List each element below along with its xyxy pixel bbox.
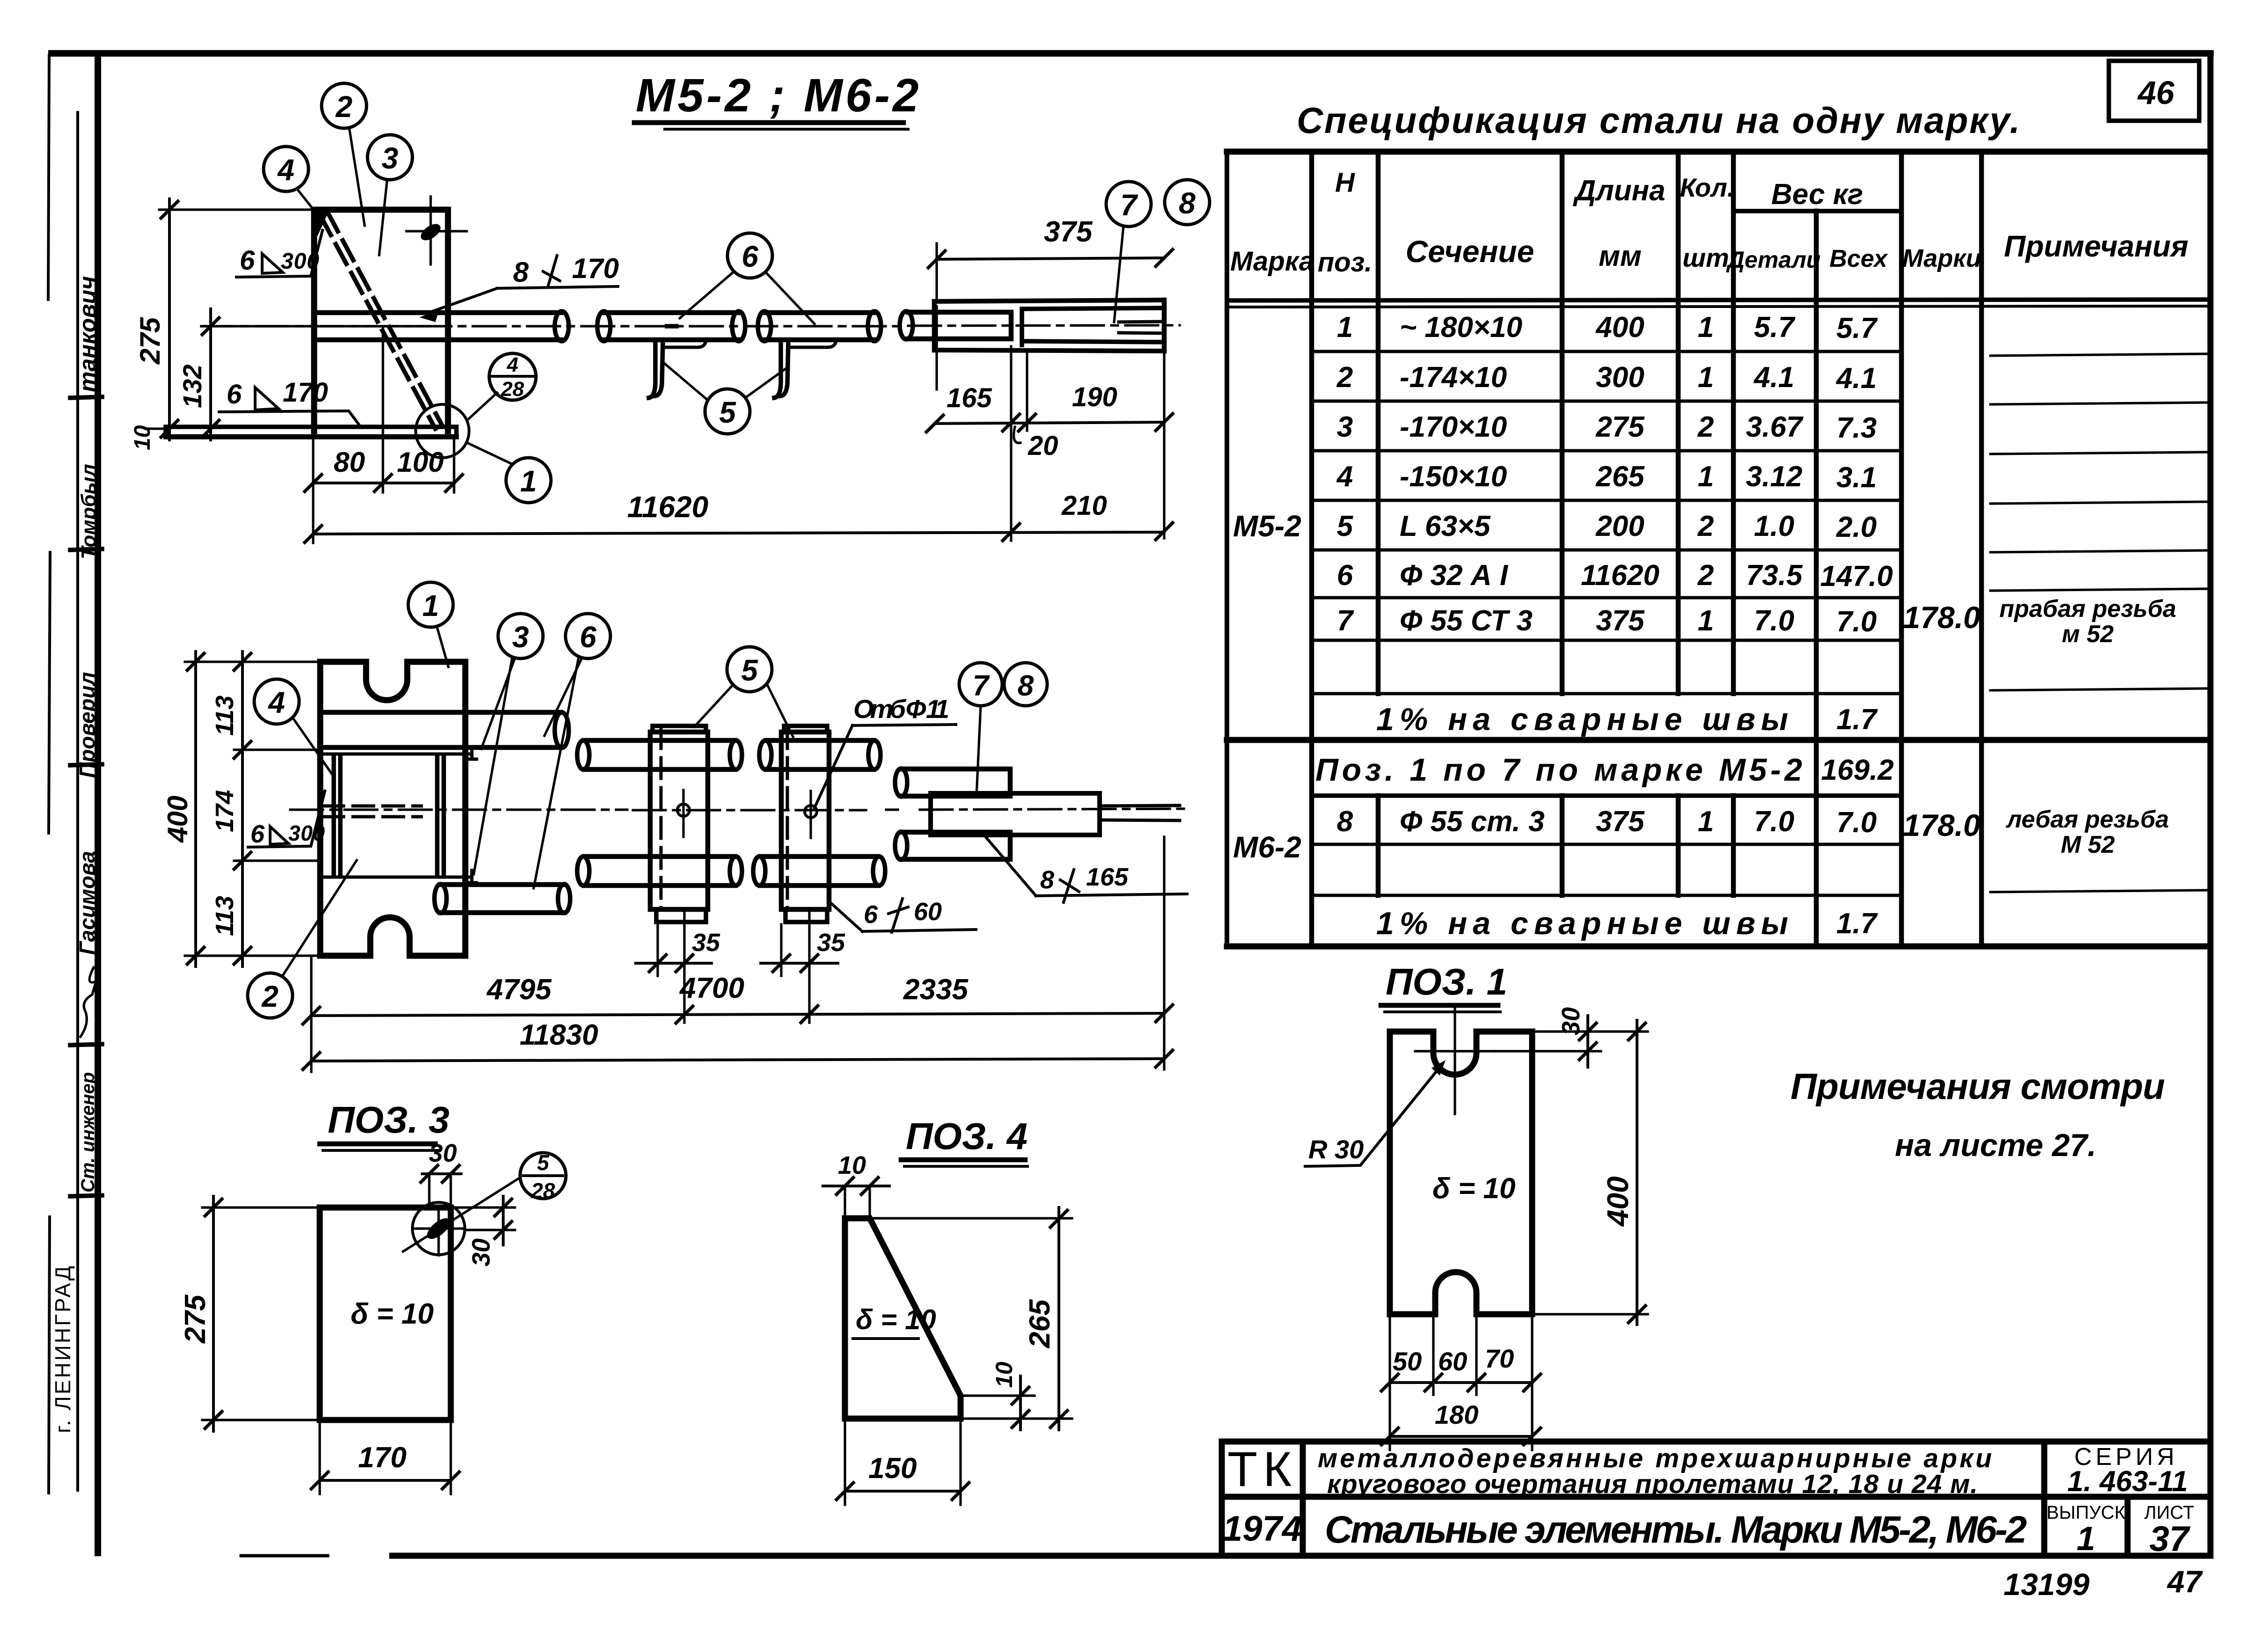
table top border xyxy=(1227,149,2210,155)
svg-text:375: 375 xyxy=(1596,805,1645,838)
svg-text:3: 3 xyxy=(1337,411,1353,443)
svg-text:8: 8 xyxy=(1337,805,1353,838)
poz1 ext line 400 bottom xyxy=(1532,1313,1648,1315)
svg-text:4.1: 4.1 xyxy=(1753,361,1794,394)
svg-text:169.2: 169.2 xyxy=(1821,754,1894,786)
svg-text:Стальные элементы. Марки М5-2,: Стальные элементы. Марки М5-2, М6-2 xyxy=(1325,1508,2027,1551)
col line marki xyxy=(1899,152,1904,946)
balloon 3 xyxy=(367,135,412,180)
poz1 dim 180 xyxy=(1390,1435,1532,1438)
poz1 notch crosshair xyxy=(1415,1006,1495,1114)
svg-text:7: 7 xyxy=(973,670,990,702)
svg-text:400: 400 xyxy=(162,796,193,843)
title block divider vypusk/list xyxy=(2125,1497,2131,1556)
svg-text:300: 300 xyxy=(281,249,319,274)
svg-text:лебая резьба: лебая резьба xyxy=(2005,806,2169,833)
svg-text:275: 275 xyxy=(1595,411,1645,443)
svg-text:50: 50 xyxy=(1393,1347,1422,1376)
stiffener P4 right pair xyxy=(437,755,444,876)
svg-text:70: 70 xyxy=(1485,1344,1514,1373)
rod cap top plan xyxy=(555,712,569,748)
svg-text:275: 275 xyxy=(179,1294,212,1344)
svg-text:Примечания смотри: Примечания смотри xyxy=(1791,1066,2165,1107)
title underline xyxy=(634,120,903,125)
svg-text:60: 60 xyxy=(1438,1347,1467,1376)
dim 11620 xyxy=(313,532,1164,534)
svg-text:-150×10: -150×10 xyxy=(1400,461,1507,493)
poz1 title underline xyxy=(1381,1003,1498,1008)
balloon 2 plan xyxy=(248,973,293,1018)
svg-text:6: 6 xyxy=(864,900,878,929)
svg-text:10: 10 xyxy=(991,1361,1017,1388)
svg-text:Ф 55 СТ 3: Ф 55 СТ 3 xyxy=(1400,605,1533,637)
poz3 dim 275 xyxy=(212,1196,215,1431)
svg-text:ПОЗ. 4: ПОЗ. 4 xyxy=(906,1115,1028,1157)
svg-text:30: 30 xyxy=(467,1238,495,1266)
svg-text:1: 1 xyxy=(422,589,439,622)
dim 132 left xyxy=(209,309,212,440)
balloon 1 xyxy=(506,458,551,503)
svg-text:прабая резьба: прабая резьба xyxy=(1999,595,2176,622)
svg-text:R 30: R 30 xyxy=(1308,1135,1364,1164)
row sep 5 xyxy=(1312,549,1901,552)
plug weld crosshair vertical xyxy=(429,197,432,264)
svg-text:4: 4 xyxy=(267,686,285,719)
svg-text:Ф 32 А I: Ф 32 А I xyxy=(1400,559,1509,592)
svg-text:1: 1 xyxy=(1698,805,1714,838)
coupling outer bottom xyxy=(934,350,1164,351)
page number box xyxy=(2109,61,2199,121)
svg-text:Детали: Детали xyxy=(1726,247,1820,273)
row sep 1 xyxy=(1312,350,1901,353)
svg-text:113: 113 xyxy=(211,896,239,936)
balloon 7 plan xyxy=(959,663,1002,706)
ext verticals plan dims xyxy=(311,837,1164,1072)
svg-text:20: 20 xyxy=(1028,431,1058,461)
stamp column ticks xyxy=(70,397,102,1196)
svg-text:8: 8 xyxy=(1040,866,1054,894)
svg-text:300: 300 xyxy=(1596,361,1644,394)
svg-text:1: 1 xyxy=(520,464,537,498)
rod middle segment A xyxy=(604,313,739,340)
poz4 dim 10 right xyxy=(1019,1376,1022,1430)
col line marka xyxy=(1225,152,1229,946)
poz4 ext lines 150 xyxy=(845,1420,961,1505)
ext verticals 80/100 xyxy=(313,327,454,543)
title block divider TK xyxy=(1300,1442,1306,1556)
plug weld blob xyxy=(418,221,443,244)
balloon 6 plan xyxy=(565,614,610,659)
svg-text:Спецификация стали на одну мар: Спецификация стали на одну марку. xyxy=(1297,100,2020,141)
svg-text:47: 47 xyxy=(2166,1564,2203,1599)
module B plate P5 xyxy=(781,732,829,909)
module B hidden line xyxy=(786,728,789,908)
balloon 7 xyxy=(1106,182,1151,227)
balloon 8 plan xyxy=(1004,663,1047,706)
svg-text:7.3: 7.3 xyxy=(1836,412,1877,444)
plate P3 elevation xyxy=(314,210,448,431)
module C sleeve xyxy=(931,793,1100,835)
module A hole xyxy=(677,804,690,816)
poz3 dim 30 top xyxy=(422,1172,461,1175)
svg-text:6: 6 xyxy=(741,240,758,273)
col line primechaniya xyxy=(1979,152,1984,946)
svg-text:180: 180 xyxy=(1435,1400,1478,1429)
balloon 5 plan xyxy=(727,647,772,692)
svg-text:Проверил: Проверил xyxy=(75,672,99,778)
svg-text:танкович: танкович xyxy=(74,276,101,392)
svg-text:2: 2 xyxy=(335,90,352,124)
svg-text:4: 4 xyxy=(277,153,294,187)
base plate P1 edge xyxy=(166,427,456,437)
svg-text:4700: 4700 xyxy=(679,972,744,1004)
svg-text:5: 5 xyxy=(741,653,758,687)
svg-text:7.0: 7.0 xyxy=(1836,606,1877,638)
dim 35 module A xyxy=(636,962,712,965)
svg-text:400: 400 xyxy=(1595,311,1644,344)
module A top rod xyxy=(584,740,735,769)
svg-text:11620: 11620 xyxy=(627,490,708,524)
svg-text:80: 80 xyxy=(334,447,365,478)
svg-text:ТК: ТК xyxy=(1227,1442,1297,1497)
table section divider M5/M6 xyxy=(1227,737,2210,743)
sheet outer edge line xyxy=(48,55,50,1493)
stamp signature xyxy=(81,967,96,1037)
row sep 8 xyxy=(1312,843,1901,846)
svg-text:1: 1 xyxy=(2077,1520,2095,1558)
svg-text:113: 113 xyxy=(211,695,239,736)
ext line base xyxy=(145,427,166,430)
poz4 dim 10 top xyxy=(823,1185,889,1187)
dim 80 100 xyxy=(313,482,454,484)
threaded tail lines xyxy=(1119,322,1164,333)
poz1 dim 400 xyxy=(1636,1020,1638,1325)
plug weld crosshair horizontal xyxy=(406,230,467,232)
svg-text:Кол.: Кол. xyxy=(1680,173,1735,202)
svg-text:2: 2 xyxy=(1697,559,1714,592)
svg-text:11620: 11620 xyxy=(1581,559,1659,592)
row sep 4 xyxy=(1312,499,1901,502)
rod P6 top plan xyxy=(320,712,561,747)
poz1 ext verticals bottom xyxy=(1390,1316,1532,1450)
svg-text:1: 1 xyxy=(1698,361,1714,394)
balloon 3 plan xyxy=(498,614,543,659)
poz4 dim 265 xyxy=(1057,1208,1060,1430)
svg-text:Гасимова: Гасимова xyxy=(75,851,99,955)
svg-text:170: 170 xyxy=(572,253,619,284)
dim line 11830 xyxy=(311,1059,1164,1061)
frame left border xyxy=(95,53,101,1553)
primechaniya ruled lines xyxy=(1990,354,2207,892)
dim 113/174/113 plan xyxy=(241,651,244,966)
module B bottom rod xyxy=(760,856,878,886)
svg-text:8: 8 xyxy=(1018,670,1034,702)
row sep under poz row xyxy=(1312,793,1901,798)
row sep above 1% M6 xyxy=(1312,894,1901,897)
svg-text:1: 1 xyxy=(1337,311,1353,344)
balloon 6 top xyxy=(727,233,772,278)
svg-text:-174×10: -174×10 xyxy=(1400,361,1507,394)
svg-text:М 52: М 52 xyxy=(2061,831,2115,858)
data rows xyxy=(1315,311,2176,941)
svg-text:5: 5 xyxy=(537,1150,550,1175)
diagonal brace P2 hidden dashed xyxy=(320,212,442,429)
col line kol xyxy=(1676,152,1681,895)
svg-text:11830: 11830 xyxy=(520,1019,598,1051)
poz1 dim 50 60 70 xyxy=(1390,1381,1532,1384)
poz4 dim 150 xyxy=(845,1490,961,1493)
poz1 plate outline with notches xyxy=(1390,1032,1532,1314)
svg-text:5: 5 xyxy=(719,395,736,429)
svg-text:1: 1 xyxy=(1698,461,1714,493)
svg-text:200: 200 xyxy=(1595,510,1644,542)
svg-text:30: 30 xyxy=(429,1139,457,1167)
plate P3 top edge-on xyxy=(320,747,477,759)
svg-text:Ф 55 ст. 3: Ф 55 ст. 3 xyxy=(1400,805,1545,838)
poz3 fraction balloon 5/28 xyxy=(520,1153,566,1199)
svg-text:Ст. инженер: Ст. инженер xyxy=(78,1072,98,1193)
poz4 ext lines 265 xyxy=(870,1218,1072,1419)
svg-text:Длина: Длина xyxy=(1572,175,1665,207)
coupling inner top xyxy=(1025,308,1164,309)
svg-text:5.7: 5.7 xyxy=(1754,311,1796,344)
dim 165 190 20 xyxy=(935,422,1164,424)
svg-text:δ = 10: δ = 10 xyxy=(351,1298,433,1330)
poz3 title underline xyxy=(320,1142,435,1147)
svg-text:178.0: 178.0 xyxy=(1903,808,1980,842)
svg-text:-170×10: -170×10 xyxy=(1400,411,1507,443)
svg-text:1: 1 xyxy=(1698,311,1714,344)
svg-text:Марка: Марка xyxy=(1230,246,1314,277)
svg-text:132: 132 xyxy=(177,365,207,408)
ext lines plan left xyxy=(185,662,320,956)
svg-text:35: 35 xyxy=(817,929,845,957)
angle leg left xyxy=(663,341,706,347)
svg-text:шт: шт xyxy=(1682,243,1729,272)
svg-text:М5-2: М5-2 xyxy=(1233,509,1301,543)
rod P6 bottom plan xyxy=(440,885,564,913)
poz3 ext lines 275 xyxy=(202,1208,320,1420)
balloon 8 xyxy=(1165,180,1210,225)
svg-text:4: 4 xyxy=(1336,461,1353,493)
coupling left cap xyxy=(932,301,937,350)
svg-text:Примечания: Примечания xyxy=(2004,229,2188,263)
svg-text:L 63×5: L 63×5 xyxy=(1400,510,1491,542)
svg-text:6: 6 xyxy=(227,379,242,410)
poz3 ext lines 170 xyxy=(320,1422,451,1494)
row sep 6 xyxy=(1312,596,1901,600)
svg-text:7: 7 xyxy=(1337,605,1354,637)
row sep 2 xyxy=(1312,400,1901,403)
svg-text:2.0: 2.0 xyxy=(1836,511,1877,543)
svg-text:4: 4 xyxy=(506,353,518,376)
svg-text:М6-2: М6-2 xyxy=(1233,830,1301,864)
poz3 plug weld circle xyxy=(412,1202,465,1255)
svg-text:35: 35 xyxy=(692,929,720,957)
svg-text:100: 100 xyxy=(397,447,444,478)
svg-text:73.5: 73.5 xyxy=(1746,559,1803,592)
col line detali xyxy=(1731,152,1736,895)
svg-text:7.0: 7.0 xyxy=(1754,605,1794,637)
balloon 1 plan xyxy=(408,582,453,627)
row sep 7 xyxy=(1312,639,1901,642)
ext line mid xyxy=(201,325,430,327)
svg-text:5: 5 xyxy=(1337,510,1354,542)
col line dlina xyxy=(1560,152,1565,895)
svg-text:1974: 1974 xyxy=(1223,1509,1302,1549)
corner weld blob xyxy=(312,209,329,236)
centerline plan xyxy=(290,809,1184,810)
svg-text:Вес кг: Вес кг xyxy=(1771,178,1863,211)
rod middle segment B xyxy=(765,313,873,340)
module B bottom tab xyxy=(785,909,827,922)
col line poz xyxy=(1309,152,1314,946)
angle hook right P5 xyxy=(774,342,788,398)
svg-text:165: 165 xyxy=(1086,863,1129,891)
poz4 title underline xyxy=(901,1157,1025,1163)
svg-text:210: 210 xyxy=(1061,490,1107,521)
svg-text:Всех: Всех xyxy=(1829,245,1888,272)
svg-text:2: 2 xyxy=(1697,411,1714,443)
svg-text:1% на сварные швы: 1% на сварные швы xyxy=(1376,702,1788,737)
module B top tab xyxy=(784,726,827,732)
plate P1 plan outline xyxy=(320,662,465,956)
svg-text:Поз. 1 по 7 по марке М5-2: Поз. 1 по 7 по марке М5-2 xyxy=(1315,752,1802,788)
svg-text:мм: мм xyxy=(1599,240,1642,272)
poz1 dim 30 right xyxy=(1586,1016,1589,1067)
row sep above 1% M5 xyxy=(1312,692,1901,695)
poz3 plug blob xyxy=(424,1215,454,1243)
dim 400 plan xyxy=(194,651,197,966)
base plate bottom heavy line xyxy=(166,434,456,439)
svg-text:265: 265 xyxy=(1024,1299,1056,1348)
svg-text:поз.: поз. xyxy=(1318,247,1373,278)
header bottom double line xyxy=(1227,300,2210,300)
coupling right cap xyxy=(1162,300,1167,351)
svg-text:275: 275 xyxy=(134,316,166,365)
poz3 dim 30 right xyxy=(502,1196,505,1245)
svg-text:28: 28 xyxy=(501,378,524,401)
svg-text:3.12: 3.12 xyxy=(1746,461,1803,493)
svg-text:6: 6 xyxy=(580,620,596,654)
svg-text:60: 60 xyxy=(914,898,942,926)
dim 275 left xyxy=(168,199,171,440)
svg-text:Марки: Марки xyxy=(1902,244,1981,272)
detail circle at joint xyxy=(416,404,469,458)
coupling outer top xyxy=(934,300,1164,301)
svg-text:170: 170 xyxy=(283,377,328,408)
poz3 plug crosshair xyxy=(414,1208,464,1255)
svg-text:3: 3 xyxy=(382,141,398,175)
svg-text:2: 2 xyxy=(261,980,279,1013)
svg-text:190: 190 xyxy=(1072,382,1117,412)
row sep 3 xyxy=(1312,449,1901,453)
title block divider main/series xyxy=(2041,1442,2048,1556)
poz3 plug leader diagonal xyxy=(403,1178,520,1252)
svg-text:4795: 4795 xyxy=(486,974,552,1006)
angle hook left P5 xyxy=(649,342,663,398)
svg-text:ПОЗ. 3: ПОЗ. 3 xyxy=(328,1099,449,1141)
ext line top xyxy=(159,208,314,211)
module A bottom tab xyxy=(656,909,706,922)
svg-text:Томрбыл: Томрбыл xyxy=(77,464,100,559)
svg-text:1: 1 xyxy=(1698,605,1714,637)
svg-text:37: 37 xyxy=(2150,1519,2191,1559)
svg-text:265: 265 xyxy=(1595,461,1645,493)
svg-text:7.0: 7.0 xyxy=(1754,805,1794,838)
svg-text:3: 3 xyxy=(512,620,529,654)
poz1 R30 arrow xyxy=(1431,1060,1446,1076)
svg-text:г. ЛЕНИНГРАД: г. ЛЕНИНГРАД xyxy=(51,1264,75,1433)
svg-text:1.7: 1.7 xyxy=(1836,908,1878,940)
svg-text:1. 463-11: 1. 463-11 xyxy=(2067,1465,2187,1498)
svg-text:400: 400 xyxy=(1601,1176,1635,1227)
dim 35 module B xyxy=(761,962,838,965)
svg-text:3.67: 3.67 xyxy=(1746,411,1804,443)
svg-text:8: 8 xyxy=(1179,186,1196,220)
svg-text:300: 300 xyxy=(288,821,325,845)
svg-text:~ 180×10: ~ 180×10 xyxy=(1400,311,1522,344)
stiffener P4 left pair xyxy=(334,755,340,876)
balloon 2 xyxy=(322,83,367,128)
svg-text:кругового очертания пролетами: кругового очертания пролетами 12, 18 и 2… xyxy=(1327,1469,1978,1499)
rod end cap xyxy=(555,311,569,341)
hidden plate P2 dashed xyxy=(323,806,421,817)
svg-text:6: 6 xyxy=(240,245,255,276)
balloon 5 top drawing xyxy=(705,389,750,434)
frame top border xyxy=(51,50,2210,57)
svg-text:375: 375 xyxy=(1596,605,1645,637)
col line vsekh xyxy=(1814,211,1819,946)
module A hidden line xyxy=(660,728,663,908)
balloon 4 plan xyxy=(254,679,299,724)
module B top rod xyxy=(766,740,873,769)
plate P3 bottom edge-on xyxy=(320,871,477,883)
balloon 4 xyxy=(264,146,308,191)
svg-text:375: 375 xyxy=(1044,216,1093,248)
frame bottom border xyxy=(241,1554,328,1558)
svg-text:1.7: 1.7 xyxy=(1836,703,1878,736)
coupling inner bottom xyxy=(1025,341,1164,342)
svg-text:2335: 2335 xyxy=(903,974,969,1006)
poz3 plate rect xyxy=(320,1208,451,1420)
rod caps bottom plan xyxy=(434,884,447,913)
svg-text:6: 6 xyxy=(1337,559,1353,592)
svg-text:165: 165 xyxy=(947,383,992,413)
module C bottom rod xyxy=(902,832,1010,859)
svg-text:3.1: 3.1 xyxy=(1836,461,1877,494)
svg-text:150: 150 xyxy=(868,1452,917,1485)
svg-text:178.0: 178.0 xyxy=(1903,600,1980,635)
dim 375 xyxy=(937,258,1164,259)
poz3 dim 170 xyxy=(320,1479,451,1482)
centerline dot xyxy=(667,324,676,329)
frame right border xyxy=(2208,53,2214,1556)
module B hole xyxy=(805,805,817,818)
svg-text:м 52: м 52 xyxy=(2062,621,2114,648)
svg-text:2: 2 xyxy=(1336,361,1353,394)
weld arrow 8-170 xyxy=(419,310,439,322)
svg-text:147.0: 147.0 xyxy=(1820,560,1893,593)
stamp column left line xyxy=(76,112,79,1490)
poz4 plate shape xyxy=(845,1218,961,1419)
coupling divider xyxy=(1020,309,1024,345)
module A bottom rod xyxy=(584,856,735,886)
svg-text:Сечение: Сечение xyxy=(1406,234,1534,269)
svg-text:7.0: 7.0 xyxy=(1836,806,1877,839)
svg-text:1% на сварные швы: 1% на сварные швы xyxy=(1376,906,1788,941)
rod into coupling xyxy=(908,312,1011,339)
